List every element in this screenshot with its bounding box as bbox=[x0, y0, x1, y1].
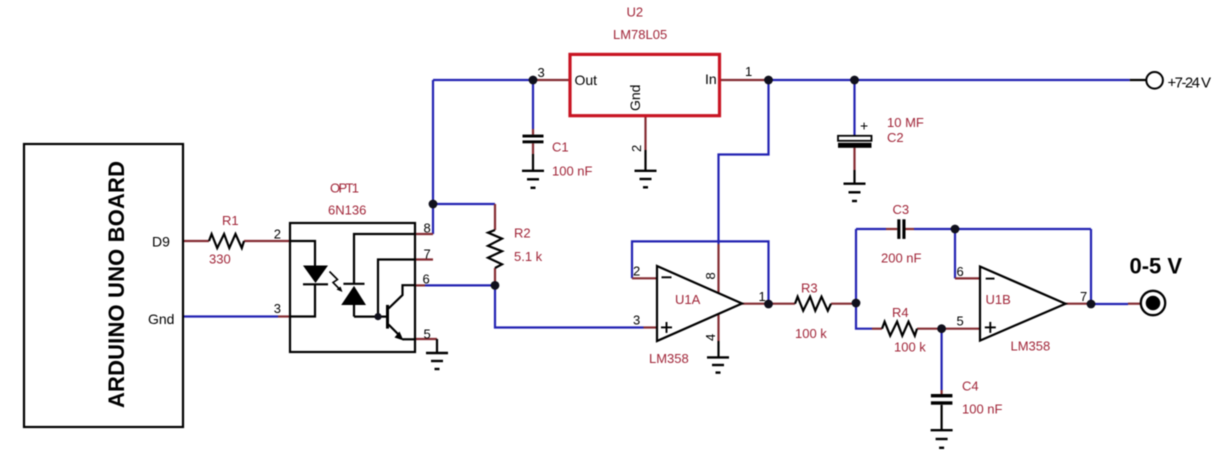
svg-text:R2: R2 bbox=[514, 226, 531, 241]
svg-text:3: 3 bbox=[633, 313, 640, 328]
svg-text:330: 330 bbox=[209, 252, 231, 267]
svg-text:100 nF: 100 nF bbox=[962, 402, 1003, 417]
svg-text:U2: U2 bbox=[627, 5, 644, 20]
svg-text:100 k: 100 k bbox=[795, 326, 827, 341]
svg-text:6N136: 6N136 bbox=[328, 203, 366, 218]
svg-text:5: 5 bbox=[424, 327, 431, 342]
svg-text:Out: Out bbox=[575, 72, 598, 88]
svg-text:D9: D9 bbox=[152, 234, 170, 250]
svg-text:+7-24 V: +7-24 V bbox=[1168, 75, 1212, 92]
svg-text:C3: C3 bbox=[893, 202, 910, 217]
svg-text:10 MF: 10 MF bbox=[887, 115, 924, 130]
svg-text:3: 3 bbox=[274, 301, 281, 316]
svg-text:+: + bbox=[860, 118, 868, 134]
svg-text:OPT1: OPT1 bbox=[330, 181, 359, 196]
svg-text:U1A: U1A bbox=[675, 292, 701, 307]
svg-text:2: 2 bbox=[274, 227, 281, 242]
svg-text:2: 2 bbox=[629, 145, 644, 152]
svg-text:In: In bbox=[705, 71, 717, 87]
svg-text:7: 7 bbox=[424, 247, 431, 262]
svg-text:2: 2 bbox=[633, 264, 640, 279]
svg-text:U1B: U1B bbox=[986, 292, 1011, 307]
svg-text:3: 3 bbox=[538, 65, 545, 80]
svg-text:4: 4 bbox=[703, 334, 718, 341]
svg-text:200 nF: 200 nF bbox=[881, 251, 922, 266]
svg-text:C2: C2 bbox=[887, 130, 904, 145]
svg-text:5: 5 bbox=[957, 314, 964, 329]
svg-text:ARDUINO UNO BOARD: ARDUINO UNO BOARD bbox=[104, 161, 129, 408]
svg-text:1: 1 bbox=[745, 64, 752, 79]
svg-text:LM78L05: LM78L05 bbox=[613, 27, 667, 42]
svg-text:C1: C1 bbox=[552, 140, 569, 155]
svg-text:LM358: LM358 bbox=[649, 351, 689, 366]
svg-text:8: 8 bbox=[424, 221, 431, 236]
svg-text:6: 6 bbox=[957, 264, 964, 279]
svg-text:100 nF: 100 nF bbox=[552, 164, 593, 179]
svg-text:8: 8 bbox=[703, 272, 718, 279]
svg-text:5.1 k: 5.1 k bbox=[514, 249, 543, 264]
svg-text:1: 1 bbox=[759, 289, 766, 304]
svg-text:6: 6 bbox=[423, 272, 430, 287]
svg-text:R1: R1 bbox=[222, 213, 239, 228]
svg-text:Gnd: Gnd bbox=[148, 311, 174, 327]
svg-text:C4: C4 bbox=[962, 379, 979, 394]
svg-text:LM358: LM358 bbox=[1011, 339, 1051, 354]
svg-text:0-5 V: 0-5 V bbox=[1130, 254, 1183, 279]
svg-text:Gnd: Gnd bbox=[627, 85, 643, 111]
svg-text:R4: R4 bbox=[892, 305, 909, 320]
svg-text:R3: R3 bbox=[801, 281, 818, 296]
svg-text:7: 7 bbox=[1080, 289, 1087, 304]
svg-text:100 k: 100 k bbox=[894, 340, 926, 355]
